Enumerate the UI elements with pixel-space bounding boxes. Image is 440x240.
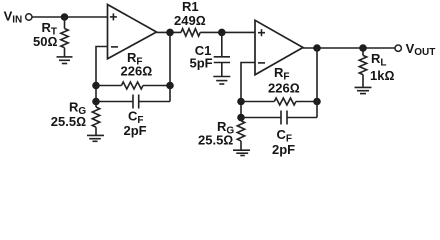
ground for RG1	[87, 135, 104, 141]
svg-text:2pF: 2pF	[272, 142, 295, 157]
wire C1 top lead	[221, 32, 223, 56]
wire R1 to op-amp U2 + input	[200, 31, 255, 33]
op-amp U2 + input symbol	[258, 29, 265, 36]
wire CF1 row left	[96, 101, 133, 103]
wire CF1 row right	[139, 101, 170, 103]
feedback left rail U2 dots	[237, 98, 245, 106]
svg-text:VOUT: VOUT	[406, 41, 436, 58]
wire RT lead	[64, 17, 66, 29]
ground for RT	[57, 57, 73, 64]
capacitor CF (stage 2) 2pF	[281, 111, 287, 125]
wire CF2 row left	[241, 117, 281, 119]
wire C1 to ground	[221, 63, 223, 77]
svg-text:226Ω: 226Ω	[121, 64, 153, 79]
op-amp U1 + input symbol	[110, 13, 117, 20]
node junction dot RF1 right	[166, 82, 174, 90]
svg-text:5pF: 5pF	[190, 56, 213, 71]
svg-text:25.5Ω: 25.5Ω	[198, 133, 233, 148]
feedback left rail U1 dots: node at RF/CF	[92, 82, 100, 90]
resistor RL 1k ohm	[359, 55, 366, 74]
capacitor C1 labels	[190, 43, 213, 71]
resistor RG (stage 1) lead	[95, 102, 97, 108]
resistor RF2 labels	[268, 65, 300, 95]
svg-text:50Ω: 50Ω	[33, 34, 57, 49]
node junction dot U1 output	[166, 29, 174, 37]
resistor RT labels	[33, 20, 57, 49]
node VOUT label	[406, 41, 436, 58]
resistor RF (stage 2) 226 ohm	[274, 98, 296, 105]
node VIN label	[4, 8, 23, 25]
ground for RL	[355, 87, 372, 93]
svg-text:RL: RL	[371, 51, 387, 69]
svg-text:249Ω: 249Ω	[174, 13, 206, 28]
svg-text:VIN: VIN	[4, 8, 23, 25]
wire U2 - input to feedback node	[241, 63, 255, 118]
output terminal VOUT	[395, 45, 401, 51]
wire RF1 row right	[143, 85, 170, 87]
wire U1 - input to feedback node	[96, 47, 108, 102]
wire RL to ground	[362, 75, 364, 88]
capacitor CF1 labels	[124, 108, 147, 138]
capacitor C1	[214, 57, 230, 63]
resistor RG1 labels	[51, 99, 87, 129]
wire RG1 to ground	[95, 127, 97, 135]
resistor RG2 labels	[198, 119, 234, 148]
wire U1 output to R1	[157, 31, 182, 33]
op-amp U2 - input symbol	[258, 62, 265, 64]
resistor RL lead	[362, 48, 364, 55]
svg-text:226Ω: 226Ω	[268, 80, 300, 95]
svg-text:1kΩ: 1kΩ	[370, 68, 394, 83]
resistor RF (stage 1) 226 ohm	[121, 82, 143, 89]
capacitor CF2 labels	[272, 127, 295, 157]
op-amp U1 - input symbol	[111, 46, 118, 48]
node junction dot RL tap	[359, 44, 367, 52]
op-amp U1	[108, 5, 157, 59]
input terminal VIN	[26, 14, 32, 20]
wire RG2 to ground	[240, 141, 242, 150]
wire U2 output	[303, 47, 395, 49]
ground for C1	[213, 77, 230, 85]
op-amp U2	[255, 20, 303, 75]
svg-text:25.5Ω: 25.5Ω	[51, 114, 86, 129]
node junction dot at C1 tap	[218, 29, 226, 37]
resistor RG (stage 2) lead	[240, 118, 242, 121]
node junction dot at RT tap	[61, 13, 69, 21]
svg-text:R1: R1	[182, 0, 199, 14]
svg-text:2pF: 2pF	[124, 123, 147, 138]
wire VIN to op-amp U1 + input	[32, 16, 107, 18]
node junction dot U2 output	[313, 44, 321, 52]
wire RF2 row left	[241, 101, 274, 103]
node junction dot RF2 right	[313, 98, 321, 106]
resistor RG (stage 1) 25.5 ohm	[92, 107, 99, 127]
wire RF2 row right	[296, 101, 317, 103]
wire RT to ground	[64, 48, 66, 57]
wire RF1 row left	[96, 85, 121, 87]
resistor R1 labels	[174, 0, 206, 28]
wire CF2 row right	[287, 117, 317, 119]
resistor RF1 labels	[121, 50, 153, 79]
wire feedback right rail U1	[169, 32, 171, 101]
resistor R1	[181, 29, 200, 36]
resistor RT	[61, 29, 68, 48]
ground for RG2	[233, 150, 250, 155]
capacitor CF (stage 1) 2pF	[133, 95, 139, 109]
resistor RL labels	[370, 51, 394, 83]
resistor RG (stage 2) 25.5 ohm	[237, 121, 244, 141]
wire feedback right rail U2	[316, 48, 318, 118]
